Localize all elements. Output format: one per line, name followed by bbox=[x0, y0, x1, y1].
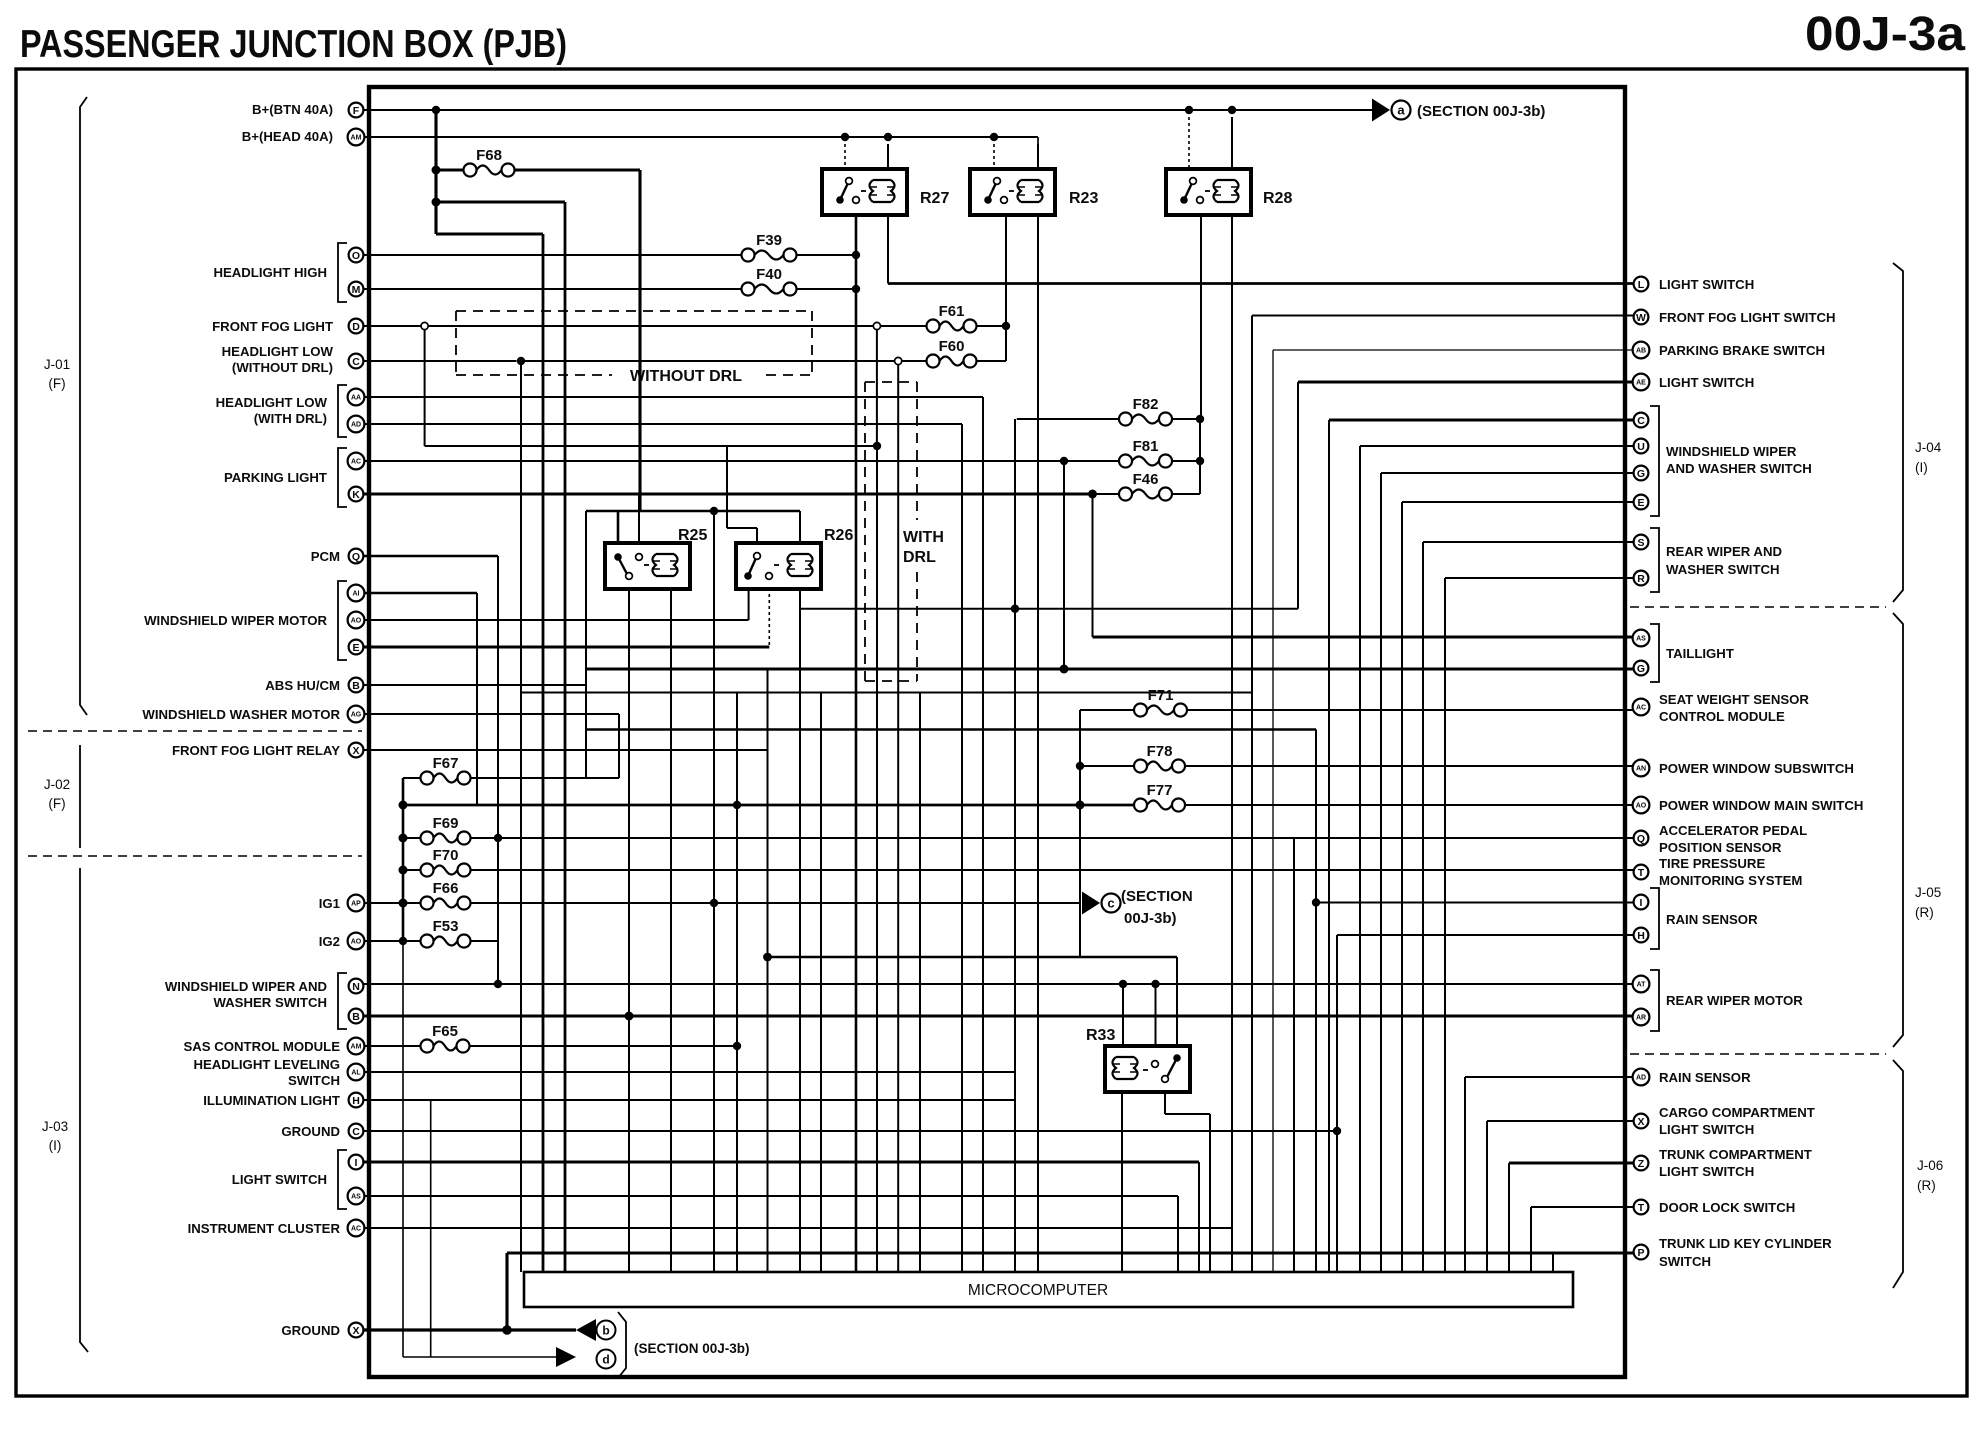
J-04/J-05 divider bbox=[1630, 606, 1886, 608]
wire GROUND bus / TRUNK LID P y1253 bbox=[507, 1251, 1633, 1254]
wire PARKING BRAKE SWITCH AB y350 bbox=[1273, 349, 1633, 351]
wire branch y202 bbox=[436, 200, 565, 203]
svg-text:WINDSHIELD WIPER AND: WINDSHIELD WIPER AND bbox=[165, 979, 327, 994]
arrow to section (d) bbox=[556, 1347, 576, 1367]
junction bbox=[1119, 980, 1127, 988]
svg-text:G: G bbox=[1637, 663, 1645, 675]
svg-text:J-05: J-05 bbox=[1915, 885, 1941, 900]
wire F53 out bbox=[471, 940, 499, 942]
svg-text:AC: AC bbox=[351, 1226, 361, 1233]
svg-text:J-02: J-02 bbox=[44, 777, 70, 792]
wire D alt drop x877 (WITH DRL) bbox=[876, 330, 878, 447]
svg-text:F71: F71 bbox=[1148, 687, 1174, 704]
wire FOG LIGHT RELAY X y750 bbox=[364, 749, 768, 751]
svg-text:AC: AC bbox=[1636, 705, 1646, 712]
relay R27 bbox=[822, 169, 907, 215]
svg-text:AM: AM bbox=[351, 135, 362, 142]
svg-text:O: O bbox=[352, 250, 360, 262]
connector circle bbox=[895, 357, 902, 364]
pin AM (left 1046) bbox=[348, 1038, 365, 1055]
svg-text:PARKING LIGHT: PARKING LIGHT bbox=[224, 470, 327, 485]
wire R26 coil top lead bbox=[799, 511, 801, 543]
svg-text:N: N bbox=[352, 981, 360, 993]
wire RAIN SENSOR H y935 bbox=[1337, 934, 1633, 936]
pin-group bracket (AI/AO/E) bbox=[338, 581, 347, 660]
svg-text:M: M bbox=[352, 284, 361, 296]
wire R25 coil x671 to microcomputer bbox=[670, 589, 672, 1272]
wire F40 to R27 bbox=[797, 288, 857, 290]
svg-text:F: F bbox=[353, 105, 360, 117]
pin D (left 326) bbox=[349, 319, 364, 334]
svg-text:G: G bbox=[1637, 468, 1645, 480]
wire to F70 bbox=[403, 869, 421, 871]
svg-text:WINDSHIELD WIPER MOTOR: WINDSHIELD WIPER MOTOR bbox=[144, 613, 327, 628]
svg-text:F65: F65 bbox=[432, 1023, 458, 1040]
wire F82 out bbox=[1172, 418, 1201, 420]
junction bbox=[1196, 415, 1204, 423]
svg-text:AR: AR bbox=[1636, 1015, 1646, 1022]
junction bbox=[494, 980, 502, 988]
svg-text:AG: AG bbox=[351, 712, 362, 719]
svg-text:REAR WIPER MOTOR: REAR WIPER MOTOR bbox=[1666, 993, 1803, 1008]
junction bbox=[852, 285, 860, 293]
junction bbox=[763, 953, 772, 962]
svg-text:(SECTION 00J-3b): (SECTION 00J-3b) bbox=[1417, 103, 1545, 120]
connector bracket J-05 bbox=[1893, 613, 1903, 1047]
fuse F78 bbox=[1134, 760, 1147, 773]
svg-text:PARKING BRAKE SWITCH: PARKING BRAKE SWITCH bbox=[1659, 343, 1825, 358]
pin AT (right 984) bbox=[1633, 976, 1650, 993]
svg-text:SWITCH: SWITCH bbox=[1659, 1254, 1711, 1269]
wire x1316 to microcomputer bbox=[1315, 730, 1317, 1273]
svg-text:AS: AS bbox=[351, 1194, 361, 1201]
svg-text:POWER WINDOW MAIN SWITCH: POWER WINDOW MAIN SWITCH bbox=[1659, 798, 1863, 813]
svg-text:CONTROL MODULE: CONTROL MODULE bbox=[1659, 709, 1785, 724]
svg-text:c: c bbox=[1107, 896, 1114, 911]
svg-text:F46: F46 bbox=[1133, 471, 1159, 488]
junction bbox=[1312, 898, 1320, 906]
fuse F53 bbox=[421, 935, 434, 948]
wire R28 lead (dotted) bbox=[1188, 117, 1190, 169]
wire ABS HU/CM B y685 bbox=[364, 684, 586, 686]
wire y528 into R26 bbox=[727, 527, 757, 529]
wire to section d y1357 bbox=[403, 1356, 556, 1358]
junction bbox=[710, 899, 718, 907]
pin AN (right 768) bbox=[1633, 760, 1650, 777]
junction bbox=[710, 507, 718, 515]
junction bbox=[733, 801, 741, 809]
svg-text:J-04: J-04 bbox=[1915, 440, 1942, 455]
wire to F60 bbox=[902, 360, 927, 362]
svg-text:R26: R26 bbox=[824, 527, 853, 544]
svg-text:P: P bbox=[1637, 1247, 1644, 1259]
wire IG bus y805 bbox=[403, 804, 1134, 807]
svg-text:HEADLIGHT LEVELING: HEADLIGHT LEVELING bbox=[193, 1057, 340, 1072]
wire B+(BTN 40A) bus y110 bbox=[364, 109, 1378, 111]
pin X (left 1330) bbox=[349, 1323, 364, 1338]
svg-text:F81: F81 bbox=[1133, 438, 1159, 455]
wire bus y729 bbox=[586, 728, 1316, 731]
svg-text:RAIN SENSOR: RAIN SENSOR bbox=[1666, 912, 1758, 927]
relay R23 bbox=[970, 169, 1055, 215]
arrow to section (c) bbox=[1082, 892, 1100, 915]
pin AO (left 941) bbox=[348, 933, 365, 950]
pin E (right 502) bbox=[1634, 495, 1649, 510]
junction bbox=[399, 866, 408, 875]
wire x821 to microcomputer bbox=[820, 693, 822, 1273]
svg-text:WINDSHIELD WASHER MOTOR: WINDSHIELD WASHER MOTOR bbox=[142, 707, 340, 722]
wire HEADLIGHT HIGH M y289 bbox=[364, 288, 742, 290]
svg-text:Z: Z bbox=[1638, 1158, 1645, 1170]
wire x1531 to microcomputer bbox=[1530, 1207, 1532, 1272]
pin AG (left 714) bbox=[348, 706, 365, 723]
svg-text:F70: F70 bbox=[433, 847, 459, 864]
arrow to section (a) bbox=[1372, 99, 1390, 122]
wire F46 out bbox=[1172, 493, 1201, 495]
svg-text:U: U bbox=[1637, 441, 1645, 453]
wire y608 to AE riser bbox=[800, 608, 1298, 610]
wire y446 bbox=[425, 445, 877, 447]
svg-text:C: C bbox=[352, 356, 360, 368]
junction bbox=[1076, 762, 1084, 770]
fuse F61 bbox=[927, 320, 940, 333]
pin N (left 986) bbox=[349, 979, 364, 994]
wire vertical x565 to microcomputer bbox=[564, 202, 567, 1272]
wire x1402 to microcomputer bbox=[1401, 502, 1403, 1272]
svg-text:AN: AN bbox=[1636, 766, 1646, 773]
connector bracket J-02 bbox=[79, 745, 81, 848]
junction bbox=[990, 133, 998, 141]
svg-text:DOOR LOCK SWITCH: DOOR LOCK SWITCH bbox=[1659, 1200, 1795, 1215]
pin AD (left 424) bbox=[348, 416, 365, 433]
wire R23 coil x1038 to microcomputer bbox=[1037, 215, 1039, 1272]
svg-text:C: C bbox=[1637, 415, 1645, 427]
wire F81 out bbox=[1172, 460, 1201, 462]
wire R28 coil x1232 to microcomputer bbox=[1231, 215, 1233, 1272]
svg-text:AC: AC bbox=[351, 459, 361, 466]
wire x1080 bbox=[1079, 710, 1081, 957]
svg-text:HEADLIGHT HIGH: HEADLIGHT HIGH bbox=[213, 265, 327, 280]
connector circle bbox=[421, 322, 428, 329]
svg-text:J-06: J-06 bbox=[1917, 1158, 1943, 1173]
fuse F39 bbox=[742, 249, 755, 262]
svg-text:R25: R25 bbox=[678, 527, 707, 544]
wire x1092 down to taillight AS line bbox=[1092, 494, 1094, 637]
wire WIPER MOTOR E y647 bbox=[364, 645, 769, 648]
wire x629 to microcomputer bbox=[628, 1016, 630, 1272]
pin-group bracket (AS/G) bbox=[1650, 624, 1659, 682]
wire x1015 to microcomputer bbox=[1014, 419, 1016, 1272]
wire x507 ground riser bbox=[505, 1253, 508, 1330]
wire to F71 bbox=[1080, 709, 1134, 711]
pin X (left 750) bbox=[349, 743, 364, 758]
wire D tap drop x424 bbox=[424, 330, 426, 447]
svg-text:C: C bbox=[352, 1126, 360, 1138]
svg-text:FRONT FOG LIGHT: FRONT FOG LIGHT bbox=[212, 319, 333, 334]
svg-text:ABS HU/CM: ABS HU/CM bbox=[265, 678, 340, 693]
svg-text:(WITHOUT DRL): (WITHOUT DRL) bbox=[232, 360, 333, 375]
pin-group bracket (S/R) bbox=[1650, 528, 1659, 592]
wire WIPER SWITCH G y473 bbox=[1381, 472, 1633, 474]
wire GROUND X y1330 bbox=[364, 1328, 576, 1331]
svg-text:F67: F67 bbox=[433, 755, 459, 772]
wire PCM Q y556 bbox=[364, 555, 498, 558]
wire LIGHT SWITCH I y1162 bbox=[364, 1160, 1199, 1163]
pin Z (right 1163) bbox=[1634, 1156, 1649, 1171]
pin AC (left 461) bbox=[348, 453, 365, 470]
svg-text:AE: AE bbox=[1636, 380, 1646, 387]
svg-text:AM: AM bbox=[351, 1044, 362, 1051]
wire x430 drop bbox=[430, 1100, 432, 1357]
wire R25 contact out x629 bbox=[628, 589, 630, 1016]
wire bus y692 bbox=[521, 692, 1252, 694]
svg-text:X: X bbox=[352, 1325, 359, 1337]
pin AR (right 1017) bbox=[1633, 1009, 1650, 1026]
wire HEADLIGHT LOW C y361 bbox=[364, 360, 517, 362]
pin AE (right 382) bbox=[1633, 374, 1650, 391]
wire F68 output bbox=[515, 168, 641, 171]
wire R33 coil top lead bbox=[1122, 984, 1124, 1046]
wire x737 to microcomputer bbox=[736, 693, 738, 1273]
wire IG1 y903 bbox=[364, 902, 421, 904]
wire R33 arm feed x1177 bbox=[1176, 957, 1178, 1046]
junction bbox=[1060, 665, 1069, 674]
wire IG2 y941 bbox=[364, 940, 421, 942]
wire relay feed y511 bbox=[586, 510, 800, 513]
svg-text:(I): (I) bbox=[1915, 460, 1928, 475]
svg-text:GROUND: GROUND bbox=[281, 1124, 340, 1139]
pin AA (left 397) bbox=[348, 389, 365, 406]
pin AD (right 1077) bbox=[1633, 1069, 1650, 1086]
svg-text:AND WASHER SWITCH: AND WASHER SWITCH bbox=[1666, 461, 1812, 476]
svg-text:F77: F77 bbox=[1147, 782, 1173, 799]
svg-text:HEADLIGHT LOW: HEADLIGHT LOW bbox=[216, 395, 328, 410]
wire F78 to AN y766 bbox=[1185, 765, 1634, 767]
wire R23 coil lead bbox=[1037, 144, 1039, 169]
fuse F77 bbox=[1134, 799, 1147, 812]
wire R26 switch top lead bbox=[756, 528, 758, 543]
wire N to REAR WIPER AT y984 bbox=[364, 983, 1633, 985]
wire PARKING LIGHT AC y461 bbox=[364, 460, 1061, 462]
fuse F68 bbox=[464, 164, 477, 177]
wire R33 switch out bbox=[1164, 1092, 1166, 1114]
pin-group bracket (AA/AD) bbox=[338, 385, 347, 437]
wire to F68 bbox=[436, 168, 464, 171]
svg-text:CARGO COMPARTMENT: CARGO COMPARTMENT bbox=[1659, 1105, 1815, 1120]
pin R (right 578) bbox=[1634, 571, 1649, 586]
wire AE riser x1298 bbox=[1297, 382, 1299, 609]
connector bracket J-01 bbox=[80, 97, 87, 715]
wire R26 arm lead down bbox=[748, 588, 750, 620]
svg-text:d: d bbox=[602, 1353, 609, 1367]
pin AB (right 350) bbox=[1633, 342, 1650, 359]
wire x767 to microcomputer bbox=[767, 669, 769, 1272]
wire x586 F67 net bbox=[585, 511, 587, 778]
svg-text:K: K bbox=[352, 489, 360, 501]
svg-text:TRUNK LID KEY CYLINDER: TRUNK LID KEY CYLINDER bbox=[1659, 1236, 1832, 1251]
svg-text:POWER WINDOW SUBSWITCH: POWER WINDOW SUBSWITCH bbox=[1659, 761, 1854, 776]
junction bbox=[1333, 1127, 1341, 1135]
svg-text:J-01: J-01 bbox=[44, 357, 70, 372]
svg-text:F68: F68 bbox=[476, 147, 502, 164]
wire x1487 to microcomputer bbox=[1486, 1121, 1488, 1272]
arrow to section (b) bbox=[576, 1319, 596, 1341]
svg-text:ACCELERATOR PEDAL: ACCELERATOR PEDAL bbox=[1659, 823, 1807, 838]
svg-text:AL: AL bbox=[351, 1070, 361, 1077]
wire SAS AM y1046 bbox=[364, 1045, 421, 1047]
wire to F46 bbox=[1093, 493, 1120, 495]
svg-text:WASHER SWITCH: WASHER SWITCH bbox=[213, 995, 327, 1010]
junction bbox=[625, 1012, 634, 1021]
svg-text:(I): (I) bbox=[49, 1138, 62, 1153]
wire x1252 to microcomputer bbox=[1251, 316, 1253, 1273]
pin Q (right 838) bbox=[1634, 831, 1649, 846]
wire WIPER MOTOR AO y620 bbox=[364, 619, 749, 621]
junction bbox=[494, 834, 502, 842]
wire x1200 R28 switch net bbox=[1199, 419, 1201, 494]
wire x1199 to microcomputer bbox=[1198, 1162, 1200, 1272]
svg-text:F61: F61 bbox=[939, 303, 965, 320]
wire RAIN SENSOR I y902 bbox=[1316, 902, 1633, 904]
svg-text:WASHER SWITCH: WASHER SWITCH bbox=[1666, 562, 1780, 577]
wire WIPER SWITCH C y420 bbox=[1329, 418, 1633, 421]
wire CARGO X y1121 bbox=[1487, 1120, 1633, 1122]
wire x1509 to microcomputer bbox=[1508, 1163, 1510, 1272]
svg-text:S: S bbox=[1637, 537, 1644, 549]
svg-text:IG2: IG2 bbox=[319, 934, 340, 949]
wire F70 to TIRE T y870 bbox=[471, 869, 1634, 871]
svg-text:F53: F53 bbox=[433, 918, 459, 935]
svg-text:AI: AI bbox=[353, 591, 360, 598]
relay R33 bbox=[1105, 1046, 1190, 1092]
wire vertical x962 to microcomputer bbox=[961, 424, 963, 1272]
wire F77 to AO y805 bbox=[1185, 804, 1634, 806]
wire FRONT FOG LIGHT D y326 bbox=[364, 325, 421, 327]
svg-text:GROUND: GROUND bbox=[281, 1323, 340, 1338]
pin AC (left 1228) bbox=[348, 1220, 365, 1237]
wire C continues bbox=[521, 360, 895, 362]
svg-text:F66: F66 bbox=[433, 880, 459, 897]
svg-text:J-03: J-03 bbox=[42, 1119, 68, 1134]
wire TAILLIGHT G y669 bbox=[586, 667, 1633, 670]
wire x477 down bbox=[476, 593, 478, 805]
svg-text:B: B bbox=[352, 1011, 360, 1023]
pin G (right 473) bbox=[1634, 466, 1649, 481]
wire x714 to microcomputer bbox=[713, 511, 715, 1272]
wire x1360 to microcomputer bbox=[1359, 446, 1361, 1272]
svg-text:POSITION SENSOR: POSITION SENSOR bbox=[1659, 840, 1782, 855]
svg-text:AD: AD bbox=[1636, 1075, 1646, 1082]
pin B (left 1016) bbox=[349, 1009, 364, 1024]
svg-text:LIGHT SWITCH: LIGHT SWITCH bbox=[232, 1172, 327, 1187]
wire R28 switch out x1201 bbox=[1200, 215, 1202, 419]
pin E (left 647) bbox=[349, 640, 364, 655]
wire F65 out bbox=[470, 1045, 738, 1047]
wire vertical x983 to microcomputer bbox=[982, 397, 984, 1272]
wire WIPER SWITCH U y446 bbox=[1360, 445, 1633, 447]
junction bbox=[1011, 605, 1019, 613]
wire INSTRUMENT CLUSTER AC y1228 bbox=[364, 1227, 1232, 1229]
pin S (right 542) bbox=[1634, 535, 1649, 550]
connector circle bbox=[873, 322, 880, 329]
fuse F60 bbox=[927, 355, 940, 368]
wire F61 out bbox=[977, 325, 1007, 327]
svg-text:(WITH DRL): (WITH DRL) bbox=[254, 411, 327, 426]
wire R27 coil lead bbox=[887, 144, 889, 169]
wire branch y234 bbox=[436, 232, 543, 235]
pin L (right 284) bbox=[1634, 277, 1649, 292]
svg-text:R: R bbox=[1637, 573, 1645, 585]
svg-text:T: T bbox=[1638, 1202, 1645, 1214]
wire x920 to microcomputer bbox=[919, 693, 921, 1273]
svg-text:H: H bbox=[1637, 930, 1645, 942]
svg-text:T: T bbox=[1638, 867, 1645, 879]
pin AC (right 707) bbox=[1633, 699, 1650, 716]
wire R27 switch out x856 down to microcomputer bbox=[855, 215, 858, 1272]
pin P (right 1252) bbox=[1634, 1245, 1649, 1260]
svg-text:SWITCH: SWITCH bbox=[288, 1073, 340, 1088]
svg-text:W: W bbox=[1636, 312, 1646, 324]
wire x1465 to microcomputer bbox=[1464, 1077, 1466, 1272]
pin AP (left 903) bbox=[348, 895, 365, 912]
wire R27 lead (dotted) bbox=[844, 144, 846, 169]
pin-group bracket (AC/K) bbox=[338, 448, 347, 507]
svg-text:INSTRUMENT CLUSTER: INSTRUMENT CLUSTER bbox=[188, 1221, 341, 1236]
junction bbox=[884, 133, 892, 141]
wire HEADLIGHT LOW AA y397 bbox=[364, 396, 983, 398]
svg-text:IG1: IG1 bbox=[319, 896, 340, 911]
wire x1273 to microcomputer bbox=[1272, 350, 1274, 1272]
pin-group bracket (O/M) bbox=[338, 243, 347, 302]
pin X (right 1121) bbox=[1634, 1114, 1649, 1129]
wire TAILLIGHT AS y637 bbox=[1093, 635, 1634, 638]
pin AL (left 1072) bbox=[348, 1064, 365, 1081]
pin I (right 902) bbox=[1634, 895, 1649, 910]
fuse F71 bbox=[1134, 704, 1147, 717]
relay R28 bbox=[1166, 169, 1251, 215]
svg-text:WITHOUT DRL: WITHOUT DRL bbox=[630, 368, 742, 385]
relay R26 bbox=[736, 543, 821, 589]
wire WASHER MOTOR AG y714 bbox=[364, 713, 619, 715]
svg-text:00J-3b): 00J-3b) bbox=[1124, 910, 1177, 927]
pin AS (left 1196) bbox=[348, 1188, 365, 1205]
junction bbox=[1151, 980, 1159, 988]
wire to F82 bbox=[1017, 418, 1119, 420]
svg-text:B: B bbox=[352, 680, 360, 692]
svg-text:AO: AO bbox=[351, 939, 362, 946]
wire to F81 bbox=[1064, 460, 1119, 462]
junction bbox=[399, 801, 408, 810]
wire R26 coil drop x800 bbox=[799, 589, 801, 1272]
pin AS (right 638) bbox=[1633, 630, 1650, 647]
wire F39 to R27 bbox=[797, 254, 857, 256]
pin M (left 289) bbox=[349, 282, 364, 297]
svg-text:ILLUMINATION LIGHT: ILLUMINATION LIGHT bbox=[203, 1093, 340, 1108]
pin B (left 685) bbox=[349, 678, 364, 693]
junction bbox=[502, 1325, 512, 1335]
pin AO (left 620) bbox=[348, 612, 365, 629]
wire x1423 to microcomputer bbox=[1422, 542, 1424, 1272]
WITHOUT DRL dashed box bbox=[456, 310, 812, 312]
svg-text:(F): (F) bbox=[48, 796, 65, 811]
pin K (left 494) bbox=[349, 487, 364, 502]
junction bbox=[1002, 322, 1010, 330]
relay R25 bbox=[605, 543, 690, 589]
svg-text:Q: Q bbox=[352, 551, 360, 563]
svg-text:B+(BTN 40A): B+(BTN 40A) bbox=[252, 102, 333, 117]
svg-text:F69: F69 bbox=[433, 815, 459, 832]
fuse F69 bbox=[421, 832, 434, 845]
